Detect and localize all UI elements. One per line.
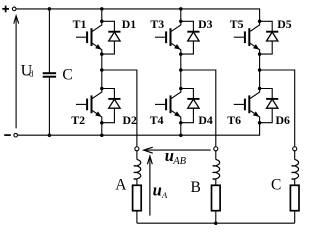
svg-text:C: C — [271, 177, 281, 194]
svg-text:T5: T5 — [230, 17, 244, 31]
svg-text:B: B — [191, 179, 201, 196]
svg-text:T3: T3 — [150, 17, 164, 31]
svg-text:u: u — [153, 180, 162, 199]
svg-text:D3: D3 — [198, 17, 213, 31]
svg-text:D2: D2 — [122, 113, 137, 127]
svg-text:AB: AB — [172, 156, 186, 167]
svg-text:A: A — [115, 176, 127, 193]
svg-text:T4: T4 — [150, 113, 164, 127]
svg-text:T1: T1 — [73, 17, 87, 31]
svg-text:D1: D1 — [122, 17, 137, 31]
svg-text:D5: D5 — [277, 17, 292, 31]
svg-text:T6: T6 — [227, 113, 241, 127]
svg-text:D6: D6 — [275, 113, 290, 127]
svg-text:T2: T2 — [71, 113, 85, 127]
svg-text:C: C — [62, 67, 72, 84]
svg-text:A: A — [161, 190, 168, 200]
svg-text:D4: D4 — [198, 113, 213, 127]
